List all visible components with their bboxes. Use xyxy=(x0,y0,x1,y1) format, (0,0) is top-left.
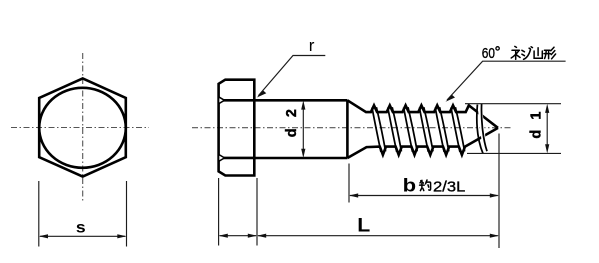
svg-text:2: 2 xyxy=(284,109,300,117)
svg-text:L: L xyxy=(357,214,370,236)
svg-text:60: 60 xyxy=(482,45,495,62)
svg-text:2/3L: 2/3L xyxy=(433,178,465,195)
svg-text:r: r xyxy=(309,36,315,55)
svg-text:d: d xyxy=(284,128,300,137)
svg-text:1: 1 xyxy=(529,112,545,120)
svg-text:d: d xyxy=(529,130,545,139)
svg-text:b: b xyxy=(403,174,417,195)
svg-text:s: s xyxy=(76,219,86,236)
